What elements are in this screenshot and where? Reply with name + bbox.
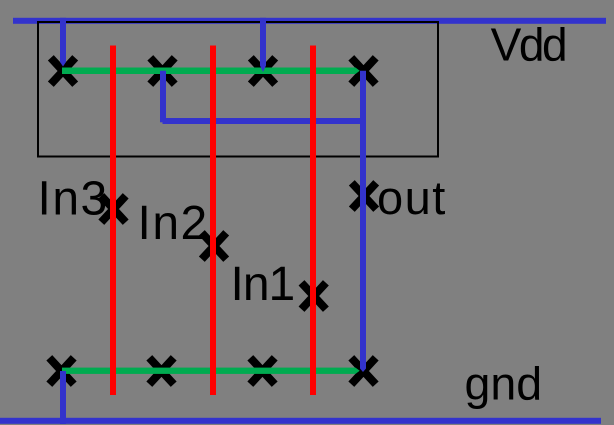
- contact X5 out-diffusion: [352, 183, 376, 209]
- wire metal output strap (blue horizontal): [163, 118, 367, 124]
- contact X1 Vdd-source (top row): [51, 58, 75, 84]
- wire Vdd rail (blue metal, top): [13, 18, 606, 24]
- wire metal contact X2 down (blue vertical): [160, 71, 166, 123]
- contact X8 nmos (bottom row): [250, 358, 274, 384]
- wire p-diffusion (green horizontal, top) with arrow tip: [62, 68, 360, 75]
- wire metal out line (blue vertical, arrow tip at bottom): [360, 71, 366, 372]
- contact X2 pmos drain (top row): [150, 58, 174, 84]
- wire poly gate In3 (red vertical): [110, 46, 116, 396]
- wire metal Vdd to contact X1 (blue vertical, arrow tip): [60, 18, 66, 67]
- svg-text:In2: In2: [138, 197, 209, 250]
- svg-text:out: out: [377, 171, 447, 224]
- gate mark In2: [202, 233, 226, 259]
- wire metal gnd to contact X6 (blue vertical): [60, 371, 66, 424]
- wire gnd rail (blue metal, bottom): [0, 418, 601, 424]
- contact X6 gnd-source (bottom row): [49, 358, 73, 384]
- svg-text:gnd: gnd: [465, 358, 543, 410]
- wire metal Vdd to contact X3 (blue vertical, arrow tip): [260, 18, 266, 72]
- n-well box: [38, 22, 438, 157]
- contact X9 nmos out (bottom row): [351, 358, 375, 384]
- contact X3 Vdd-source (top row): [251, 58, 275, 84]
- contact X7 nmos (bottom row): [149, 358, 173, 384]
- wire poly gate In1 (red vertical): [310, 46, 316, 396]
- gate mark In1: [302, 283, 326, 309]
- gate mark In3: [101, 196, 125, 222]
- wire n-diffusion (green horizontal, bottom) with arrow tip: [62, 368, 360, 374]
- contact X4 pmos drain out (top row): [351, 58, 375, 84]
- svg-text:In3: In3: [38, 173, 109, 226]
- svg-text:Vdd: Vdd: [491, 19, 566, 71]
- wire poly gate In2 (red vertical): [210, 46, 216, 396]
- svg-text:In1: In1: [231, 258, 295, 311]
